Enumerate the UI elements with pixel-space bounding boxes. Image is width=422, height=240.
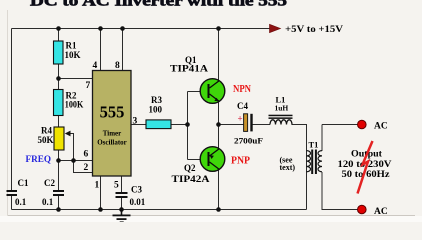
svg-text:100K: 100K [65, 100, 84, 110]
node Q2 collector ground rail [216, 207, 221, 212]
svg-text:Timer: Timer [103, 130, 122, 138]
wire pin 1 [100, 176, 102, 210]
node C3 ground rail [119, 207, 124, 212]
node Q1 collector rail [216, 26, 221, 31]
svg-text:2700uF: 2700uF [234, 136, 263, 146]
svg-text:DC to AC Inverter with the 555: DC to AC Inverter with the 555 [30, 0, 287, 10]
wire pin 5 to C3 [121, 176, 123, 192]
resistor R3 [146, 120, 171, 129]
wire wiper down and pin 2 [70, 134, 93, 173]
wire C2 bottom [58, 196, 60, 210]
svg-text:TIP41A: TIP41A [170, 64, 209, 74]
wire bottom rail [12, 209, 307, 211]
potentiometer R4 [54, 127, 64, 150]
wire secondary top to AC [322, 124, 358, 126]
svg-text:C2: C2 [44, 178, 55, 188]
node emitters output [216, 122, 221, 127]
svg-text:R3: R3 [151, 95, 162, 105]
wiper arrow R4 [65, 131, 71, 137]
lightning bolt [358, 141, 373, 194]
resistor R2 [54, 90, 64, 116]
svg-text:8: 8 [115, 61, 120, 71]
wire L1 to transformer [292, 125, 307, 210]
wire Q2 collector [218, 170, 220, 210]
node pin1 ground rail [98, 207, 103, 212]
wire top rail [12, 28, 271, 30]
terminal AC bottom [358, 205, 367, 214]
svg-text:FREQ: FREQ [26, 155, 52, 165]
svg-text:4: 4 [93, 61, 98, 71]
capacitor C3 [116, 192, 128, 194]
wire R1 to node [58, 64, 60, 90]
svg-text:NPN: NPN [233, 84, 252, 95]
svg-text:C1: C1 [18, 178, 29, 188]
svg-text:1: 1 [95, 181, 100, 191]
wire output to C4 [219, 124, 244, 126]
node wiper pin6 [71, 158, 76, 163]
svg-text:555: 555 [100, 103, 125, 122]
svg-text:7: 7 [86, 81, 91, 91]
transistor Q1 [200, 79, 225, 104]
wire R1 top [58, 29, 60, 42]
wire pin 8 [122, 29, 124, 71]
wire Q1 collector [218, 29, 220, 81]
wire base column [187, 92, 189, 160]
svg-text:Q2: Q2 [184, 163, 196, 173]
terminal AC top [358, 120, 367, 129]
svg-text:PNP: PNP [231, 156, 250, 167]
svg-text:50K: 50K [37, 135, 53, 145]
svg-text:2: 2 [84, 163, 89, 173]
capacitor C1 [7, 190, 18, 192]
svg-text:AC: AC [374, 207, 388, 217]
svg-text:Oscillator: Oscillator [97, 139, 127, 147]
transistor Q2 [200, 147, 225, 172]
wire C4 to L1 [253, 124, 270, 126]
svg-text:5: 5 [114, 181, 119, 191]
svg-text:6: 6 [84, 150, 89, 160]
svg-text:R4: R4 [41, 126, 52, 136]
node C2 ground rail [56, 207, 61, 212]
capacitor C4 [244, 114, 248, 132]
svg-text:+: + [238, 114, 243, 124]
svg-text:0.01: 0.01 [130, 197, 146, 207]
wire emitters column [218, 102, 220, 149]
svg-text:T1: T1 [309, 140, 319, 150]
wire R2 to R4 [58, 116, 60, 128]
wire pin 4 [100, 29, 102, 71]
svg-text:100: 100 [149, 105, 163, 115]
svg-text:AC: AC [374, 122, 388, 132]
svg-text:text): text) [280, 163, 296, 172]
resistor R1 [54, 41, 64, 64]
supply arrow [270, 24, 281, 32]
svg-text:C3: C3 [131, 185, 142, 195]
node R1 top rail [56, 26, 61, 31]
op IC 555 U1 [93, 71, 132, 177]
ground [113, 210, 131, 223]
node pin8 rail [120, 26, 125, 31]
svg-text:+5V to +15V: +5V to +15V [285, 25, 343, 35]
wire pin 7 [59, 78, 93, 80]
wire R3 to base node [172, 124, 188, 126]
svg-text:3: 3 [133, 117, 138, 127]
wire pin 3 [131, 124, 146, 126]
svg-text:0.1: 0.1 [15, 197, 27, 207]
node base column [185, 122, 190, 127]
wire left branch [11, 29, 13, 191]
wire secondary column top [321, 125, 323, 152]
svg-text:10K: 10K [65, 50, 81, 60]
svg-text:R1: R1 [66, 41, 77, 51]
svg-text:TIP42A: TIP42A [172, 174, 211, 184]
wire Q2 base [188, 159, 201, 161]
wire pin 6 [59, 160, 93, 162]
node FREQ [56, 158, 61, 163]
wire C3 bottom [121, 198, 123, 210]
node pin4 rail [98, 26, 103, 31]
inductor L1 [269, 115, 293, 117]
capacitor C2 [53, 190, 64, 192]
wire R4 to C2 [58, 150, 60, 190]
transformer T1 [307, 150, 323, 175]
svg-text:0.1: 0.1 [42, 197, 54, 207]
wire Q1 base [188, 91, 201, 93]
wire secondary column bottom [322, 172, 358, 210]
svg-text:C4: C4 [237, 101, 248, 111]
svg-text:1uH: 1uH [275, 104, 289, 113]
node R1 R2 pin7 [56, 76, 61, 81]
